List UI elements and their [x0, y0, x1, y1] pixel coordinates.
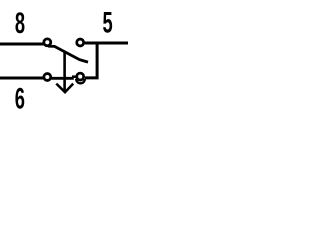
wire pin 8 — [0, 43, 44, 46]
actuator arrow head — [56, 84, 73, 93]
switch blade (open, from contact 8) — [48, 46, 88, 62]
blade stub into lower right contact — [72, 75, 77, 78]
actuator linkage wire — [63, 51, 66, 92]
right bus wire (T from pin5 wire down to lower contact) — [85, 43, 97, 78]
contact circle pin 6 — [44, 74, 51, 81]
wire pin 5 — [85, 42, 128, 45]
contact circle pin 8 — [44, 39, 51, 46]
wire pin 6 — [0, 77, 44, 80]
contact circle pin 5 — [77, 39, 84, 46]
svg-text:5: 5 — [103, 7, 113, 39]
svg-text:8: 8 — [15, 8, 25, 40]
svg-text:6: 6 — [15, 83, 25, 115]
closed blade wire 6 to crossing — [51, 77, 74, 80]
blade hook under lower right contact — [76, 79, 85, 83]
lower right contact circle — [77, 73, 84, 80]
